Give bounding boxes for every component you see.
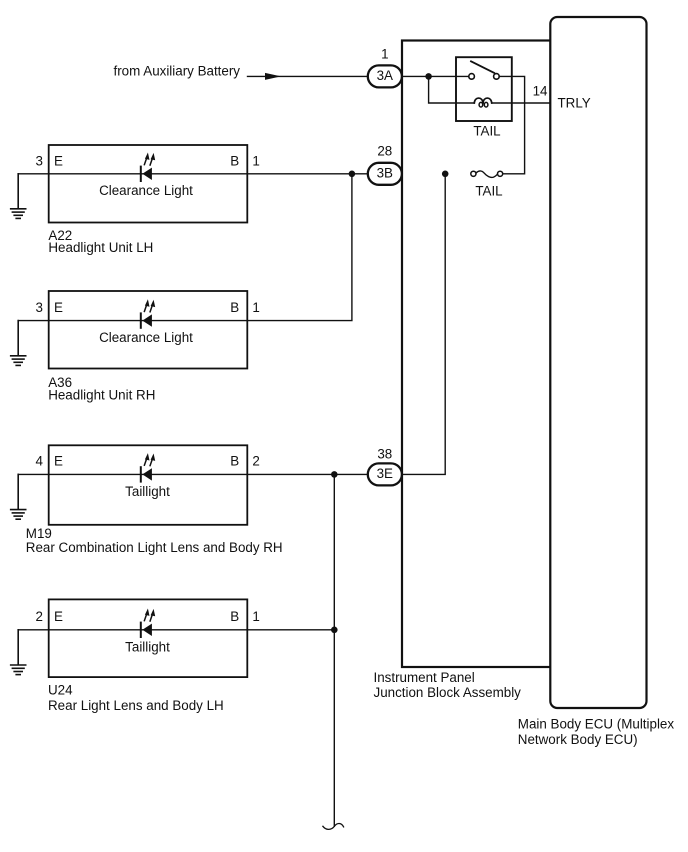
connector oval 3E [368, 463, 402, 485]
svg-text:Taillight: Taillight [125, 640, 170, 655]
junction block J/B box [402, 41, 551, 668]
node A36 riser junction [349, 171, 356, 178]
svg-text:B: B [230, 453, 239, 468]
svg-text:U24: U24 [48, 683, 73, 698]
svg-text:Clearance Light: Clearance Light [99, 330, 193, 345]
relay switch blade [471, 61, 494, 73]
svg-text:3: 3 [36, 300, 43, 315]
svg-text:Network Body ECU): Network Body ECU) [518, 732, 638, 747]
svg-text:Rear Light Lens and Body LH: Rear Light Lens and Body LH [48, 698, 224, 713]
svg-text:E: E [54, 453, 63, 468]
LED D2 [141, 299, 155, 328]
wire battery feed to 3A [248, 75, 368, 77]
svg-text:1: 1 [252, 609, 259, 624]
svg-text:TAIL: TAIL [473, 123, 500, 138]
wire relay switch out, down to fuse line [499, 76, 524, 173]
wire A36 riser [247, 174, 352, 321]
node coil tap [425, 73, 432, 80]
ECU box U1 [550, 17, 646, 708]
fuse TAIL [471, 171, 476, 176]
svg-text:Clearance Light: Clearance Light [99, 183, 193, 198]
svg-text:from Auxiliary Battery: from Auxiliary Battery [114, 64, 241, 79]
svg-text:4: 4 [36, 453, 44, 468]
svg-text:1: 1 [381, 46, 388, 61]
wire 3A to relay switch [402, 75, 469, 77]
svg-text:TRLY: TRLY [558, 95, 591, 110]
wire 3E riser [402, 174, 445, 475]
ground G4 [11, 630, 26, 675]
ground G2 [11, 321, 26, 366]
svg-text:3: 3 [36, 153, 43, 168]
svg-text:B: B [230, 300, 239, 315]
box A22 [49, 145, 248, 223]
svg-text:Taillight: Taillight [125, 484, 170, 499]
svg-text:38: 38 [377, 446, 392, 461]
svg-text:Rear Combination Light Lens an: Rear Combination Light Lens and Body RH [26, 540, 283, 555]
wire A22 row to 3B [18, 173, 368, 175]
wire A36 row ground [18, 320, 49, 322]
svg-text:B: B [230, 609, 239, 624]
relay switch contact right [494, 74, 500, 80]
svg-text:1: 1 [252, 153, 259, 168]
svg-text:Instrument Panel: Instrument Panel [374, 670, 475, 685]
svg-text:Junction Block Assembly: Junction Block Assembly [374, 685, 522, 700]
LED D1 [141, 153, 155, 182]
wire M19 row to 3E [18, 473, 368, 475]
box A36 [49, 291, 248, 369]
svg-text:14: 14 [533, 83, 548, 98]
svg-text:E: E [54, 609, 63, 624]
LED D4 [141, 609, 155, 638]
arrow battery feed [265, 73, 281, 80]
relay switch contact left [469, 74, 475, 80]
ground G3 [11, 474, 26, 519]
svg-text:3A: 3A [377, 68, 393, 83]
svg-text:M19: M19 [26, 526, 52, 541]
relay box TAIL [456, 57, 512, 121]
wire U24 row [18, 629, 334, 631]
node 3E riser junction [442, 171, 449, 178]
box U24 [49, 599, 248, 677]
node bus top [331, 471, 338, 478]
wire A36 row inside box [49, 320, 248, 322]
svg-text:Main Body ECU (Multiplex: Main Body ECU (Multiplex [518, 717, 675, 732]
wire coil feed [429, 76, 475, 103]
svg-text:E: E [54, 153, 63, 168]
wire coil to ECU pin 14 [492, 102, 551, 104]
box M19 [49, 445, 248, 525]
wire bus vertical [333, 474, 335, 826]
svg-text:Headlight Unit RH: Headlight Unit RH [48, 388, 155, 403]
relay coil [474, 98, 483, 103]
svg-text:3E: 3E [377, 466, 393, 481]
svg-text:2: 2 [252, 453, 259, 468]
svg-text:TAIL: TAIL [475, 184, 502, 199]
squiggle continuation [323, 824, 344, 830]
connector oval 3B [368, 163, 402, 185]
LED D3 [141, 453, 155, 482]
svg-text:Headlight Unit LH: Headlight Unit LH [48, 240, 153, 255]
svg-text:3B: 3B [377, 166, 393, 181]
node bus U24 junction [331, 627, 338, 634]
ground G1 [11, 174, 26, 219]
connector oval 3A [368, 65, 402, 87]
svg-text:1: 1 [252, 300, 259, 315]
svg-text:2: 2 [36, 609, 43, 624]
svg-text:28: 28 [377, 143, 392, 158]
svg-text:B: B [230, 153, 239, 168]
svg-text:E: E [54, 300, 63, 315]
